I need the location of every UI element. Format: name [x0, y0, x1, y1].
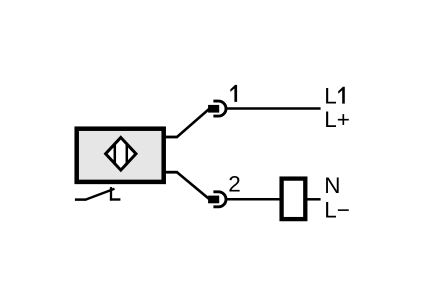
wire: diagonal to connector 2 — [176, 172, 209, 200]
wire: sensor stub to pin 1 — [164, 136, 178, 139]
connector plug 1 — [208, 105, 219, 113]
wire: load to N label — [306, 198, 321, 201]
connector socket 2 — [213, 192, 226, 207]
svg-text:L+: L+ — [324, 107, 350, 132]
wire: diagonal to connector 1 — [176, 109, 209, 138]
wire: sensor stub to pin 2 — [164, 171, 178, 174]
pin number 1 — [230, 85, 237, 102]
load — [282, 179, 306, 220]
svg-text:2: 2 — [228, 171, 241, 196]
sensor symbol (diamond with two bars) — [106, 138, 136, 171]
net label L1 — [324, 84, 345, 109]
connector plug 2 — [208, 196, 219, 204]
wire: connector 1 to supply labels — [226, 107, 321, 110]
wire: connector 2 to load — [226, 198, 281, 201]
svg-text:L: L — [324, 84, 337, 109]
sensor body — [77, 129, 164, 182]
svg-text:L−: L− — [324, 198, 350, 223]
switch contact (NO) — [75, 187, 121, 201]
svg-text:N: N — [324, 173, 340, 198]
connector socket 1 — [213, 101, 226, 116]
